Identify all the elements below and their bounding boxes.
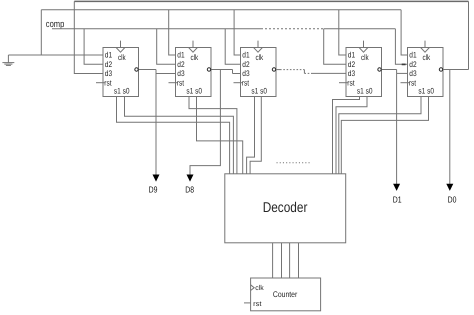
register cell U3 [234, 41, 277, 97]
svg-text:d3: d3 [177, 69, 185, 78]
register cell U1 [96, 41, 139, 97]
wire U4 s0 to decoder [336, 97, 367, 174]
svg-text:rst: rst [242, 78, 250, 87]
wire U5 s1 to decoder [339, 97, 421, 174]
wire FB bus to U1 d3 [74, 1, 103, 73]
svg-text:Counter: Counter [273, 290, 298, 299]
svg-text:s0: s0 [260, 86, 267, 95]
wire U3 s1 to decoder [247, 97, 255, 174]
wire COMP bus to U4 d2 [324, 29, 346, 65]
svg-text:s0: s0 [123, 86, 130, 95]
wire GND bus to U3 d1 [234, 10, 240, 55]
svg-text:rst: rst [347, 78, 355, 87]
svg-text:d2: d2 [409, 60, 417, 69]
wire feedback bus net FB top [74, 0, 468, 2]
wire COMP bus to U5 d2 [395, 29, 407, 65]
svg-text:d3: d3 [105, 69, 113, 78]
ground [2, 55, 14, 65]
arrow head output D8 [187, 175, 194, 182]
svg-text:d3: d3 [409, 69, 417, 78]
svg-text:d1: d1 [409, 51, 417, 60]
svg-text:rst: rst [253, 301, 261, 308]
node label D9 [149, 185, 158, 195]
svg-text:d1: d1 [242, 51, 250, 60]
svg-text:d3: d3 [242, 69, 250, 78]
wire U4 s1 to decoder [333, 97, 360, 174]
wire COMP bus to U2 d2 [157, 29, 176, 65]
svg-text:rst: rst [104, 78, 112, 87]
svg-text:D8: D8 [185, 185, 194, 195]
wire U1 s0 to decoder [125, 97, 234, 174]
node label D8 [185, 185, 194, 195]
wire U2 s0 to decoder [197, 97, 243, 174]
svg-text:d3: d3 [348, 69, 356, 78]
svg-text:clk: clk [191, 53, 199, 62]
counter U7 [251, 278, 321, 311]
svg-text:D9: D9 [149, 185, 158, 195]
svg-text:d2: d2 [177, 60, 185, 69]
wire comp bus net COMP [52, 28, 395, 30]
svg-text:s1: s1 [186, 86, 193, 95]
svg-text:s1: s1 [418, 86, 425, 95]
wire D8 tap from U2 output [190, 70, 220, 176]
svg-text:d1: d1 [348, 51, 356, 60]
wire U2 s1 to decoder [189, 97, 237, 174]
svg-text:Decoder: Decoder [263, 200, 308, 216]
svg-text:clk: clk [256, 53, 264, 62]
node label D1 [393, 194, 402, 204]
wire decoder to counter bus [273, 243, 299, 278]
svg-text:rst: rst [177, 78, 185, 87]
wire continuation dots [277, 162, 311, 164]
wire GND bus to U5 d1 [401, 10, 407, 55]
svg-text:clk: clk [255, 284, 264, 292]
register cell U4 [339, 41, 382, 97]
svg-text:D0: D0 [448, 194, 457, 204]
wire COMP bus to U1 d2 [84, 29, 103, 65]
svg-text:d2: d2 [242, 60, 250, 69]
wire D0 tap from U5 output [449, 70, 451, 185]
svg-text:s1: s1 [251, 86, 258, 95]
wire GND bus riser [40, 10, 42, 55]
wire U1 s1 to decoder [117, 97, 230, 174]
wire U3 output to U4 d3 dashed continuation [276, 70, 346, 74]
svg-text:s0: s0 [427, 86, 434, 95]
register cell U5 [401, 41, 444, 97]
svg-text:d2: d2 [105, 60, 113, 69]
node comp label [46, 19, 65, 30]
wire ground to U1 d1 [8, 54, 103, 56]
wire and arrow output D1 [393, 73, 400, 190]
node label D0 [448, 194, 457, 204]
svg-text:clk: clk [423, 53, 431, 62]
wire U4 output to U5 d3 [382, 70, 408, 74]
svg-text:d1: d1 [177, 51, 185, 60]
register cell U2 [169, 41, 212, 97]
svg-text:d2: d2 [348, 60, 356, 69]
svg-text:clk: clk [118, 53, 126, 62]
wire U2 output to U3 d3 [212, 70, 241, 74]
wire U5 s0 to decoder [341, 97, 428, 174]
wire GND bus to U4 d1 [339, 10, 346, 55]
decoder U6 [225, 174, 346, 243]
wire ground bus net GND [41, 9, 401, 11]
svg-text:rst: rst [409, 78, 417, 87]
svg-text:s1: s1 [357, 86, 364, 95]
svg-text:clk: clk [361, 53, 369, 62]
wire and arrow output D9 [153, 74, 160, 182]
wire U1 output to U2 d3 [139, 70, 176, 74]
svg-text:d1: d1 [105, 51, 113, 60]
wire GND bus to U2 d1 [169, 10, 176, 55]
wire U3 s0 to decoder [250, 97, 261, 174]
svg-text:s1: s1 [114, 86, 121, 95]
wire COMP bus to U3 d2 [225, 29, 240, 65]
wire counter rst stub [244, 302, 251, 304]
svg-text:s0: s0 [366, 86, 373, 95]
arrow head output D0 [446, 184, 453, 191]
svg-text:s0: s0 [195, 86, 202, 95]
wire U5 output feedback riser [443, 1, 469, 69]
svg-text:D1: D1 [393, 194, 402, 204]
